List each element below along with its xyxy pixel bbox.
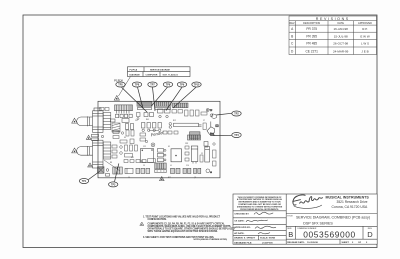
connector J4 left long (115, 105, 133, 118)
svg-text:10-JUN-98: 10-JUN-98 (307, 242, 318, 244)
svg-text:3521 Research Drive: 3521 Research Drive (337, 200, 368, 204)
svg-text:TITLE:: TITLE: (287, 215, 293, 217)
svg-text:26-OCT-98: 26-OCT-98 (333, 42, 348, 46)
svg-text:C2: C2 (201, 153, 203, 155)
svg-text:COMPUTER: COMPUTER (146, 74, 158, 76)
svg-text:APPROVED BY:: APPROVED BY: (234, 226, 251, 229)
potentiometer VR1 body (93, 108, 104, 132)
test point callout TP10 (173, 82, 201, 108)
parts below VR2 (98, 167, 110, 176)
connector J5 right upper (188, 135, 201, 140)
small circle pair under script (151, 143, 155, 147)
size / drawing number / rev (287, 227, 373, 239)
svg-text:D: D (367, 230, 373, 239)
svg-text:Fender: Fender (150, 130, 165, 138)
leader from table to board triangle (119, 77, 131, 97)
leader lines from bottom TPs crossing board (104, 160, 120, 171)
svg-text:G: G (210, 172, 212, 174)
svg-text:24-MAR-99: 24-MAR-99 (333, 49, 349, 53)
svg-text:Q2: Q2 (194, 177, 196, 179)
svg-text:R31: R31 (131, 157, 134, 159)
extra small parts upper board (100, 108, 208, 120)
bottom connector strip J7 (155, 163, 166, 173)
svg-text:CR3: CR3 (185, 143, 188, 145)
handwritten signatures (246, 212, 276, 234)
svg-text:TP1: TP1 (82, 180, 87, 183)
extra small parts mid board (113, 123, 206, 144)
notes text block (143, 216, 235, 242)
svg-text:DIAGRAM: DIAGRAM (130, 73, 140, 76)
svg-text:TP2: TP2 (234, 113, 239, 116)
svg-text:CK DATE:: CK DATE: (234, 220, 245, 223)
svg-text:TP6: TP6 (166, 84, 171, 87)
svg-text:DATE: DATE (337, 22, 344, 25)
test point callout TP8 (132, 82, 143, 109)
test point callout TP4 (right lower) (214, 133, 242, 138)
svg-text:U5: U5 (124, 137, 126, 139)
svg-text:R22: R22 (168, 177, 171, 179)
warning triangle on board mid-left lower (88, 163, 93, 167)
svg-text:L W S: L W S (361, 42, 369, 46)
svg-text:TP10: TP10 (194, 84, 200, 87)
svg-text:REV.: REV. (289, 22, 295, 25)
warning triangle below board bottom (160, 177, 165, 181)
svg-text:R12: R12 (173, 120, 176, 122)
parts between pots (92, 134, 104, 140)
svg-text:C5: C5 (128, 177, 130, 179)
bottom part cluster B (136, 168, 150, 173)
heatsink right edge (207, 122, 218, 136)
electrolytic capacitor C10 (191, 146, 198, 164)
extra small parts lower board (112, 143, 216, 166)
IC U2 DIP hatched (190, 132, 201, 140)
test point callout TP3 (bottom) (109, 164, 119, 187)
svg-text:15-JUL-98: 15-JUL-98 (334, 34, 348, 38)
revisions table (289, 16, 377, 55)
svg-text:J4: J4 (170, 165, 172, 167)
release row (287, 241, 368, 244)
test point callout TP1 (bottom left) (79, 172, 99, 184)
svg-text:R8: R8 (110, 162, 112, 164)
connector J3 top edge (173, 103, 189, 108)
svg-text:SHEET: SHEET (342, 242, 350, 244)
connector J1 top edge (137, 102, 152, 110)
svg-text:PL/PCA: PL/PCA (130, 68, 138, 71)
warning triangle above board edge (114, 96, 119, 101)
svg-text:TP8: TP8 (135, 84, 140, 87)
svg-text:DESCRIPTION: DESCRIPTION (303, 22, 320, 25)
svg-text:REVISIONS: REVISIONS (316, 17, 350, 21)
connector J2 top edge (155, 102, 172, 110)
hatched connector left mid (112, 123, 120, 132)
title block (233, 194, 377, 244)
svg-text:TP3: TP3 (111, 184, 116, 187)
small part cluster below screw (210, 114, 216, 119)
svg-text:C22: C22 (143, 146, 146, 148)
bottom part cluster A (125, 168, 133, 173)
svg-text:CHECKED BY:: CHECKED BY: (234, 214, 249, 216)
title block disclaimer text (237, 196, 283, 211)
potentiometer VR2 body (93, 140, 104, 168)
svg-text:DATABASE FILE:: DATABASE FILE: (234, 241, 252, 244)
svg-text:DRAWN: S. SPRATT: DRAWN: S. SPRATT (234, 237, 256, 240)
svg-text:16-JAN-98: 16-JAN-98 (334, 27, 349, 31)
svg-text:TP4: TP4 (234, 134, 239, 137)
potentiometer VR1 pins (103, 113, 111, 130)
svg-text:APPROVED: APPROVED (358, 22, 372, 25)
IC U3 DSP square (141, 149, 154, 163)
transistor Q1 (204, 142, 208, 149)
svg-text:J E B: J E B (361, 49, 368, 53)
svg-text:NOTES:(UNLESS OTHERWISE NOTED): NOTES:(UNLESS OTHERWISE NOTED) (194, 239, 228, 241)
electrolytic capacitor C11 (205, 147, 210, 163)
potentiometer VR1 shaft (77, 116, 93, 126)
svg-text:SERVICE DIAGRAM: SERVICE DIAGRAM (150, 68, 170, 71)
title text (287, 215, 370, 225)
small parts row upper center (144, 109, 170, 118)
svg-text:C9: C9 (143, 165, 145, 167)
svg-text:WITH THOSE HAVING EQUIVALENT O: WITH THOSE HAVING EQUIVALENT OR BETTER S… (148, 230, 219, 233)
svg-text:FROM FENDER MUSICAL INSTRUMENT: FROM FENDER MUSICAL INSTRUMENTS. (240, 208, 279, 211)
svg-text:PR 485: PR 485 (306, 42, 317, 46)
svg-text:SERVICE DIAGRAM, COMBINED (PCB: SERVICE DIAGRAM, COMBINED (PCB assy) (296, 215, 370, 219)
resistor network upper left cluster (111, 119, 134, 130)
test point callout TP9 (166, 82, 187, 111)
capacitor stack center (158, 149, 167, 162)
svg-text:SCH. 71-A05-01: SCH. 71-A05-01 (163, 73, 179, 76)
test point callout TP5 (116, 82, 147, 112)
company address (326, 196, 370, 209)
resistor R upper right horizontal (169, 123, 202, 129)
svg-text:R.P.: R.P. (362, 27, 368, 31)
warning triangle at VR1 (72, 118, 78, 123)
svg-text:TP7: TP7 (150, 84, 155, 87)
test point callout TP6 (151, 82, 173, 107)
svg-text:C14: C14 (186, 165, 189, 167)
potentiometer VR2 pins (103, 142, 111, 159)
screw hole top right (206, 109, 213, 113)
svg-text:RELEASE DATE:: RELEASE DATE: (287, 241, 305, 244)
svg-text:0053569000: 0053569000 (303, 229, 356, 239)
diagram id table text (130, 68, 179, 76)
right column rows (286, 213, 377, 215)
svg-text:MUSICAL INSTRUMENTS: MUSICAL INSTRUMENTS (326, 196, 370, 200)
svg-text:U1: U1 (168, 146, 170, 148)
sheet border frame (23, 15, 377, 248)
svg-text:CONFIGURATION.: CONFIGURATION. (148, 218, 167, 221)
revisions table text (289, 17, 372, 53)
svg-text:C7: C7 (203, 120, 205, 122)
IC U1 big square (171, 149, 182, 162)
svg-text:DSP SFX SERIES: DSP SFX SERIES (303, 221, 333, 225)
svg-text:PR 395: PR 395 (306, 34, 317, 38)
bottom connector J6 (113, 167, 123, 174)
test point callout TP7 (148, 82, 157, 111)
svg-text:AP DATE:: AP DATE: (234, 232, 244, 235)
svg-text:CE 2271: CE 2271 (305, 49, 318, 53)
svg-text:C31: C31 (135, 120, 138, 122)
left column rows (233, 210, 286, 212)
svg-text:TP5: TP5 (118, 84, 123, 87)
svg-text:Corona, CA 91720 USA: Corona, CA 91720 USA (332, 205, 369, 209)
svg-text:E W W: E W W (360, 34, 369, 38)
warning triangle on board mid-left upper (86, 135, 91, 139)
svg-text:JC03PV09: JC03PV09 (262, 242, 273, 244)
diagram id table above board (128, 67, 191, 77)
small cap right bottom circle (206, 169, 212, 174)
test point callout TP2 (right upper) (216, 111, 241, 116)
potentiometer VR2 shaft (77, 146, 93, 156)
PCB board outline (98, 101, 220, 178)
svg-text:B: B (288, 230, 293, 239)
note 2 warning triangle (140, 222, 144, 225)
bottom part cluster C (171, 168, 201, 173)
svg-text:SCALE: NONE: SCALE: NONE (260, 237, 276, 240)
component reference speckle text (110, 119, 205, 179)
svg-text:PR 375: PR 375 (306, 27, 317, 31)
svg-text:B: B (291, 34, 293, 38)
Fender script logo (292, 195, 322, 209)
capacitor row mid-left (142, 123, 162, 132)
svg-text:TP: TP (210, 110, 213, 112)
svg-text:R45: R45 (146, 119, 149, 121)
warning triangle at VR2 (72, 148, 78, 153)
svg-text:TP9: TP9 (180, 84, 185, 87)
signature rows (234, 214, 275, 245)
